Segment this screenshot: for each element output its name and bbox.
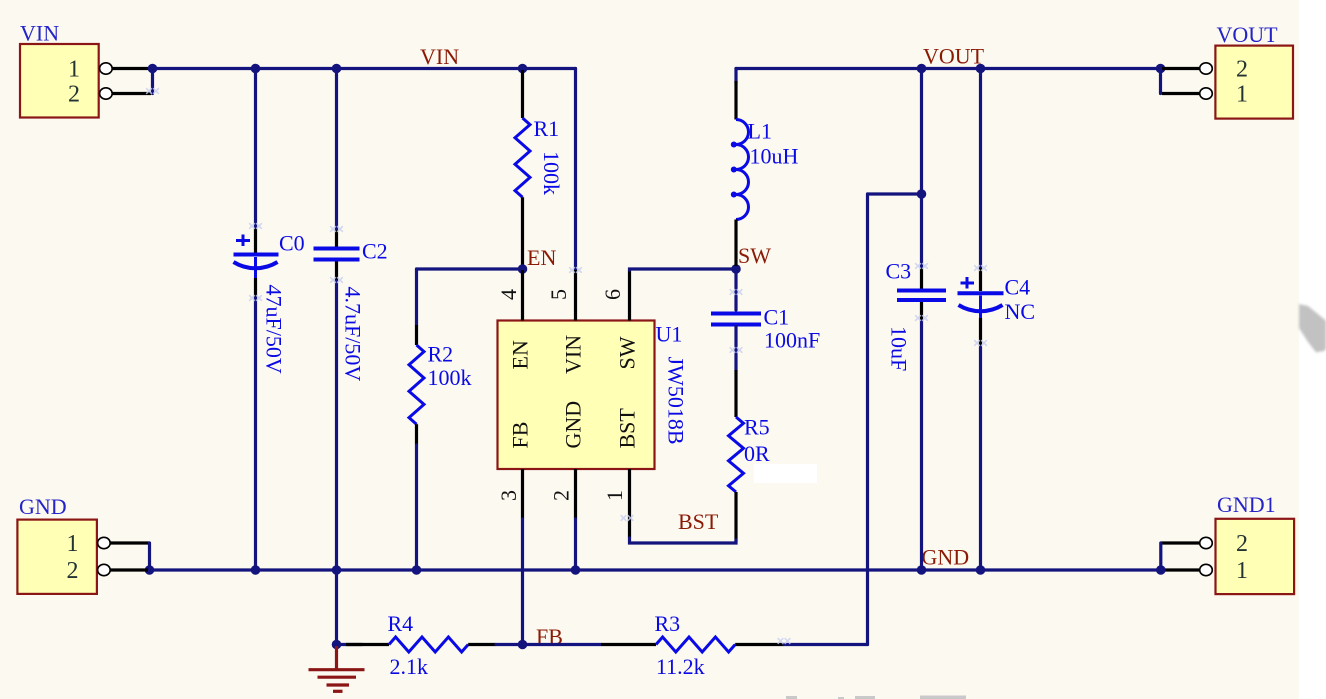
white artifact rectangle near R5 [754,464,817,483]
connector VOUT pin 1 open-pin circle [1200,88,1213,99]
capacitor C0 curved bottom plate [234,262,278,268]
svg-text:2: 2 [1236,57,1248,83]
svg-text:VOUT: VOUT [923,44,985,69]
svg-text:C0: C0 [279,231,305,256]
svg-text:C2: C2 [362,239,388,264]
ground symbol stem [335,646,338,669]
junction FB node [518,640,528,650]
junction GND rail at C4 [976,565,986,575]
wire VIN top rail [153,67,576,70]
svg-text:GND: GND [922,545,970,570]
capacitor C2 bottom plate [314,258,360,262]
inductor L1 upper lead [734,81,737,120]
svg-text:JW5018B: JW5018B [664,357,689,445]
svg-text:BST: BST [678,509,719,534]
op-amp U1 pin 4 stub [521,270,524,321]
op-amp U1 pin 1 stub [628,469,631,538]
resistor R5 lower lead [734,492,737,542]
wire U1 pin 3 FB down through ground rail [521,519,524,645]
resistor R2 upper lead [415,325,418,345]
svg-text:1: 1 [68,57,80,83]
svg-text:0R: 0R [744,441,770,466]
resistor R4 right lead [468,643,496,646]
svg-text:C4: C4 [1005,275,1031,300]
wire feedback top to VOUT tap [868,192,922,195]
capacitor C4 lower wire [979,347,982,570]
capacitor C0 upper wire [254,69,257,229]
svg-text:NC: NC [1005,299,1036,324]
ground symbol bar 1 [309,668,365,671]
junction GND rail at connector riser [145,565,155,575]
gray artifact bar 3 [855,696,875,699]
connector GND1 pin 2 open-pin circle [1200,537,1213,548]
junction VIN at C0 [251,64,261,74]
svg-text:10uF: 10uF [887,326,912,371]
junction VOUT rail at connector riser [1156,64,1166,74]
resistor R5 zigzag [729,417,744,492]
svg-text:1: 1 [67,531,79,557]
capacitor C3 upper lead [920,268,923,289]
junction VIN at C2 [332,64,342,74]
svg-text:C3: C3 [886,259,912,284]
capacitor C3 top plate [897,289,946,293]
resistor R2 lower lead [415,424,418,445]
resistor R4 left lead [346,643,389,646]
svg-text:EN: EN [508,340,533,369]
svg-text:4: 4 [496,289,521,300]
resistor R1 upper lead [521,70,524,118]
inductor L1 joint bumps [731,142,737,198]
inductor L1 arcs [736,120,748,220]
capacitor C4 upper wire [979,69,982,269]
junction GND rail at U1 pin 2 [571,565,581,575]
capacitor C2 top plate [314,247,360,251]
resistor R5 upper lead [734,370,737,417]
svg-text:EN: EN [527,245,556,270]
junction ground stem node [332,640,342,650]
ground symbol bar 2 [318,676,357,679]
capacitor C4 plus sign [961,277,975,289]
svg-text:2: 2 [67,558,79,584]
wire SW from U1 pin 6 up and right [630,269,737,270]
connector GND1 pin 2 lead [1161,541,1199,544]
resistor R3 right lead [735,643,784,646]
op-amp U1 pin 5 stub [574,270,577,321]
svg-text:VOUT: VOUT [1217,22,1279,47]
svg-text:1: 1 [602,490,627,501]
svg-text:U1: U1 [656,322,683,347]
svg-text:10uH: 10uH [750,144,799,169]
capacitor C2 upper wire [335,69,338,231]
ground symbol bar 3 [327,683,350,686]
connector VIN (J?) body [20,44,99,118]
svg-text:4.7uF/50V: 4.7uF/50V [341,287,366,382]
wire R2 lower to ground rail [415,445,418,570]
capacitor C1 bottom plate [711,323,761,327]
capacitor C4 bottom stub [979,296,982,319]
capacitor C1 top plate [711,312,761,316]
svg-text:R5: R5 [744,415,770,440]
svg-text:VIN: VIN [20,21,59,46]
op-amp U1 pin 3 stub [521,469,524,519]
wire FB node to R3 [523,643,602,646]
connector GND1 body [1216,519,1295,594]
capacitor C1 lower wire [734,327,737,371]
capacitor C4 lower lead [979,318,982,346]
svg-text:100k: 100k [428,365,472,390]
svg-text:100k: 100k [539,151,564,195]
white side panel strip [1299,0,1326,699]
wire ground node to R4 [337,643,363,646]
wire VOUT top rail [736,67,1161,70]
connector GND pin 2 open-pin circle [98,564,111,575]
capacitor C0 upper lead [254,228,257,253]
gray cursor arrow [1299,304,1326,352]
svg-text:2: 2 [1236,531,1248,557]
svg-text:5: 5 [546,289,571,300]
capacitor C4 upper lead [979,268,982,291]
svg-text:VIN: VIN [420,44,459,69]
resistor R1 lower lead [521,197,524,267]
resistor R3 left lead [601,643,656,646]
wire EN from R2 to U1 pin 4 [417,267,523,270]
svg-text:2: 2 [549,490,574,501]
wire U1 pin 2 to ground rail [574,519,577,570]
svg-text:3: 3 [496,490,521,501]
connector VOUT pin 2 open-pin circle [1200,63,1213,74]
capacitor C4 curved bottom plate [959,305,1003,311]
svg-text:VIN: VIN [561,335,586,374]
capacitor C0 lower wire [254,298,257,570]
svg-text:R1: R1 [534,116,560,141]
connector VOUT pin 2 lead [1161,67,1200,70]
capacitor C3 bottom plate [897,298,946,302]
svg-text:2: 2 [68,82,80,108]
svg-text:R2: R2 [428,342,454,367]
connector GND1 pin 1 lead [1162,568,1199,571]
junction VOUT tap at C3 line [917,189,927,199]
svg-text:L1: L1 [748,119,772,144]
junction VOUT rail at C4 [976,64,986,74]
svg-text:C1: C1 [764,305,790,330]
connector GND1 pin 1 open-pin circle [1200,564,1213,575]
capacitor C3 lower lead [920,302,923,321]
connector GND riser [148,543,151,570]
inductor L1 upper wire from VOUT rail [734,69,737,84]
wire VIN rail corner down to U1 pin 5 [574,69,577,271]
connector VIN pin 2 open-pin circle [100,88,113,99]
op-amp U1 body JW5018B [498,321,655,470]
capacitor C0 plus sign [236,235,250,247]
svg-text:GND: GND [561,401,586,449]
gray artifact bar 2 [838,697,844,699]
resistor R1 zigzag [515,118,530,197]
svg-text:R4: R4 [388,611,414,636]
svg-text:47uF/50V: 47uF/50V [262,285,287,374]
capacitor C0 bottom stub [254,257,257,278]
connector VOUT riser [1159,69,1162,94]
connector GND pin 2 lead [110,568,148,571]
junction VOUT rail at C3 [917,64,927,74]
junction GND rail at GND1 riser [1156,565,1166,575]
wire feedback riser up [866,194,869,645]
svg-text:GND1: GND1 [1217,492,1276,517]
resistor R4 zigzag [389,637,468,652]
svg-text:6: 6 [600,289,625,300]
junction GND rail at C0 [251,565,261,575]
connector VOUT body [1215,46,1293,119]
resistor R2 zigzag [409,345,424,424]
connector VIN pin 2 lead [112,92,151,95]
connector GND pin 1 open-pin circle [98,537,111,548]
capacitor C0 top plate [234,253,279,257]
svg-text:100nF: 100nF [764,328,820,353]
svg-text:R3: R3 [655,611,681,636]
junction EN node [518,264,528,274]
connector GND1 riser [1159,543,1162,570]
svg-text:11.2k: 11.2k [656,654,705,679]
ground symbol bar 4 [333,690,343,693]
svg-text:SW: SW [615,336,640,369]
capacitor C2 lower wire through ground rail [335,281,338,645]
junction GND rail at C3 [917,565,927,575]
junction GND rail at C2 [332,565,342,575]
svg-text:FB: FB [508,422,533,449]
junction VIN at R1 [518,64,528,74]
op-amp U1 pin 6 stub [628,270,631,321]
svg-text:SW: SW [738,243,771,268]
capacitor C3 lower wire [920,321,923,570]
capacitor C3 upper wire [920,69,923,269]
connector GND pin 1 lead [110,541,150,544]
svg-text:BST: BST [615,408,640,449]
wire BST from U1 pin 1 to R5 bottom [630,538,737,543]
connector VOUT pin 1 lead [1162,92,1199,95]
svg-text:1: 1 [1236,558,1248,584]
op-amp U1 pin 2 stub [574,469,577,519]
capacitor C0 lower lead [254,278,257,298]
wire R2 upper [415,269,418,325]
gray artifact bar 4 [920,696,966,699]
junction SW node [731,264,741,274]
connector VIN pin 1 lead [112,67,153,70]
connector GND body [17,520,97,594]
svg-text:GND: GND [19,494,67,519]
inductor L1 lower lead [734,220,737,267]
capacitor C4 top plate [958,291,1004,295]
wire R3 to feedback riser [784,643,868,646]
capacitor C2 lower lead [335,262,338,282]
wire R4 to FB node [496,643,523,646]
wire SW to C1 [734,269,737,310]
connector VIN pin 1 open-pin circle [100,63,113,74]
resistor R3 zigzag [656,637,735,652]
wire GND bottom rail [150,568,1161,571]
junction VIN at connector riser [148,64,158,74]
svg-text:2.1k: 2.1k [390,654,429,679]
wire VIN riser from pin2 [151,69,154,94]
capacitor C2 upper lead [335,230,338,247]
gray artifact bar 1 [786,696,797,699]
svg-text:1: 1 [1236,82,1248,108]
junction GND rail at R2 [412,565,422,575]
